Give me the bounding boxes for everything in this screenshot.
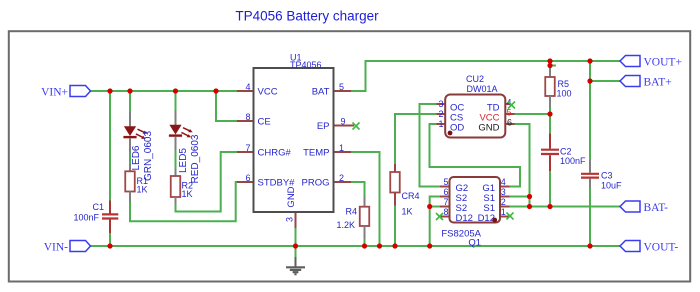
CU2 pin1 marker [448,131,453,136]
junction R4 bottom/rail [362,243,367,248]
Q1 pin names [456,183,496,224]
IC CU2 DW01A body [445,95,505,138]
svg-text:6: 6 [443,187,448,197]
svg-text:3: 3 [438,99,443,109]
wire R5 bottom to VCC node [549,108,551,134]
svg-text:BAT: BAT [312,87,330,98]
svg-text:D12: D12 [478,213,495,224]
svg-text:5: 5 [443,177,448,187]
svg-text:VIN+: VIN+ [41,87,68,99]
IC Q1 FS8205A body [450,177,501,223]
svg-text:RED_0603: RED_0603 [190,134,201,183]
resistor R2 [175,169,177,177]
wire S2 pin7 to junction [430,206,440,208]
wire PROG to R4 [351,182,365,197]
wire LED5 top [175,91,177,111]
svg-text:100nF: 100nF [560,156,586,166]
svg-text:C2: C2 [560,147,572,157]
junction BAT+/C3 [587,78,592,83]
wire CU2 GND down to S1 [515,124,530,207]
svg-text:7: 7 [443,197,448,207]
wire R5 stub notch [550,65,556,67]
wire VIN+ rail [91,90,238,92]
flag VOUT+ [620,56,640,67]
svg-text:LED5: LED5 [178,148,189,173]
junction S1 pin3 node [527,194,532,199]
svg-text:DW01A: DW01A [467,84,498,94]
IC CU2 DW01A pin stubs [437,104,515,124]
svg-text:C1: C1 [92,202,104,212]
svg-text:PROG: PROG [302,178,330,189]
wire CE branch [216,91,237,121]
svg-text:EP: EP [317,121,330,132]
wire C1 bottom [109,233,111,246]
junction C1/VIN+ [107,88,112,93]
junction S2 pins node [427,204,432,209]
svg-text:BAT-: BAT- [644,202,669,214]
flag VOUT- [620,241,640,252]
capacitor C1 [109,201,111,214]
junction R5 top [547,58,552,63]
svg-text:VOUT+: VOUT+ [644,57,682,69]
flag BAT+ [620,76,640,87]
junction C1 bottom/GND rail [107,243,112,248]
resistor R5 [549,66,551,78]
junction CU2 VCC node [547,111,552,116]
svg-text:1K: 1K [402,207,413,217]
svg-text:3: 3 [285,217,295,222]
junction C2 bottom/BAT- [547,204,552,209]
svg-text:1.2K: 1.2K [336,220,355,230]
junction LED5/VIN+ [173,88,178,93]
wire U1 GND to rail [295,228,297,246]
svg-text:2: 2 [501,197,506,207]
wire C3 bottom to VOUT- rail [589,188,591,246]
wire CR4 bottom to rail [394,206,396,247]
wire S2 pin6 to junction [430,197,440,247]
U1 pin numbers [245,82,345,222]
no-connect X on D12 pin 1 [507,213,514,220]
svg-text:GND: GND [478,122,499,133]
no-connect X on EP pin 9 [353,123,360,130]
svg-text:8: 8 [245,112,250,122]
svg-text:VIN-: VIN- [44,242,68,254]
junction CE branch [213,88,218,93]
svg-text:1K: 1K [137,185,148,195]
wire BAT+ down to C3 [589,81,591,160]
junction CR4 bottom/rail [392,243,397,248]
svg-text:TP4056: TP4056 [290,60,322,70]
LED LED5 [175,111,177,126]
svg-text:LED6: LED6 [131,145,142,170]
svg-text:10uF: 10uF [601,181,622,191]
svg-text:TP4056 Battery charger: TP4056 Battery charger [235,9,379,24]
svg-text:CHRG#: CHRG# [258,148,292,159]
svg-text:1K: 1K [182,189,193,199]
svg-text:5: 5 [339,82,344,92]
svg-text:BAT+: BAT+ [644,77,672,89]
junction S1 pin2/BAT- [527,204,532,209]
wire BAT to VOUT+ [351,61,620,91]
flag BAT- [620,201,640,212]
svg-text:Q1: Q1 [468,238,481,249]
no-connect X on D12 pin 8 [436,213,443,220]
ground symbol [295,257,297,267]
svg-text:TEMP: TEMP [303,148,329,159]
svg-text:GRN_0603: GRN_0603 [143,131,154,181]
wire C2 bottom to S1 node [549,171,551,207]
resistor R1 [129,164,131,172]
svg-text:1: 1 [339,143,344,153]
wire GND rail [90,245,620,247]
svg-text:100: 100 [557,89,572,99]
svg-text:OD: OD [450,122,464,133]
Q1 pin numbers [443,177,505,217]
capacitor C3 [589,160,591,173]
svg-text:GND: GND [286,186,297,207]
wire C1 top [109,91,111,201]
flag VIN+ [70,86,91,97]
wire rail to ground symbol [295,246,297,257]
svg-text:CU2: CU2 [466,74,484,84]
junction LED6/VIN+ [127,88,132,93]
svg-text:C3: C3 [601,171,613,181]
wire CS to CR4 [395,114,437,164]
svg-text:8: 8 [443,207,448,217]
wire R2 to CHRG# [176,152,238,212]
no-connect X on TD pin 4 [508,102,515,109]
junction TEMP/rail [377,243,382,248]
svg-text:CR4: CR4 [402,191,420,201]
junction C3 bottom/rail [587,243,592,248]
wire OC to G2 [420,104,441,187]
svg-text:2: 2 [438,109,443,119]
svg-text:4: 4 [501,177,506,187]
wire R1 to STDBY# [130,182,237,221]
svg-text:4: 4 [245,82,250,92]
wire R4 bottom to rail [364,239,366,246]
junction R5 pin [547,63,552,68]
junction U1 GND/rail [293,243,298,248]
svg-text:VOUT-: VOUT- [644,242,679,254]
wire S1 pin3 to C2 node [510,196,530,198]
resistor R4 [364,197,366,207]
U1 pin stubs [237,91,354,228]
flag VIN- [70,241,91,252]
svg-text:100nF: 100nF [73,213,99,223]
IC Q1 FS8205A pin stubs [440,187,510,217]
IC U1 TP4056 body [254,68,334,212]
svg-text:1: 1 [501,207,506,217]
svg-text:3: 3 [501,187,506,197]
svg-text:R4: R4 [345,207,357,217]
wire LED6 top [129,91,131,112]
resistor CR4 [394,164,396,172]
wire LED5 to R2 [175,151,177,169]
junction VOUT+/BAT+ [587,58,592,63]
svg-text:6: 6 [507,118,512,128]
wire BAT+ branch [590,61,620,81]
wire TEMP to rail [351,152,380,246]
svg-text:VCC: VCC [258,87,278,98]
wire LED6 to R1 [129,153,131,164]
svg-text:6: 6 [245,173,250,183]
svg-text:D12: D12 [456,213,473,224]
wire OD to G1 [430,124,521,187]
capacitor C2 [549,134,551,149]
svg-text:1: 1 [438,119,443,129]
LED LED6 [129,112,131,127]
svg-text:R5: R5 [558,79,570,89]
Q1 pin1 marker [492,218,497,223]
U1 pin names [258,87,330,208]
wire S1 pin2 to BAT- [510,206,621,208]
svg-text:CE: CE [258,117,271,128]
svg-text:9: 9 [341,117,346,127]
svg-text:5: 5 [507,108,512,118]
svg-text:2: 2 [339,173,344,183]
svg-text:7: 7 [245,143,250,153]
wire CU2 VCC to R5 node [515,113,551,115]
junction S2/rail [427,243,432,248]
